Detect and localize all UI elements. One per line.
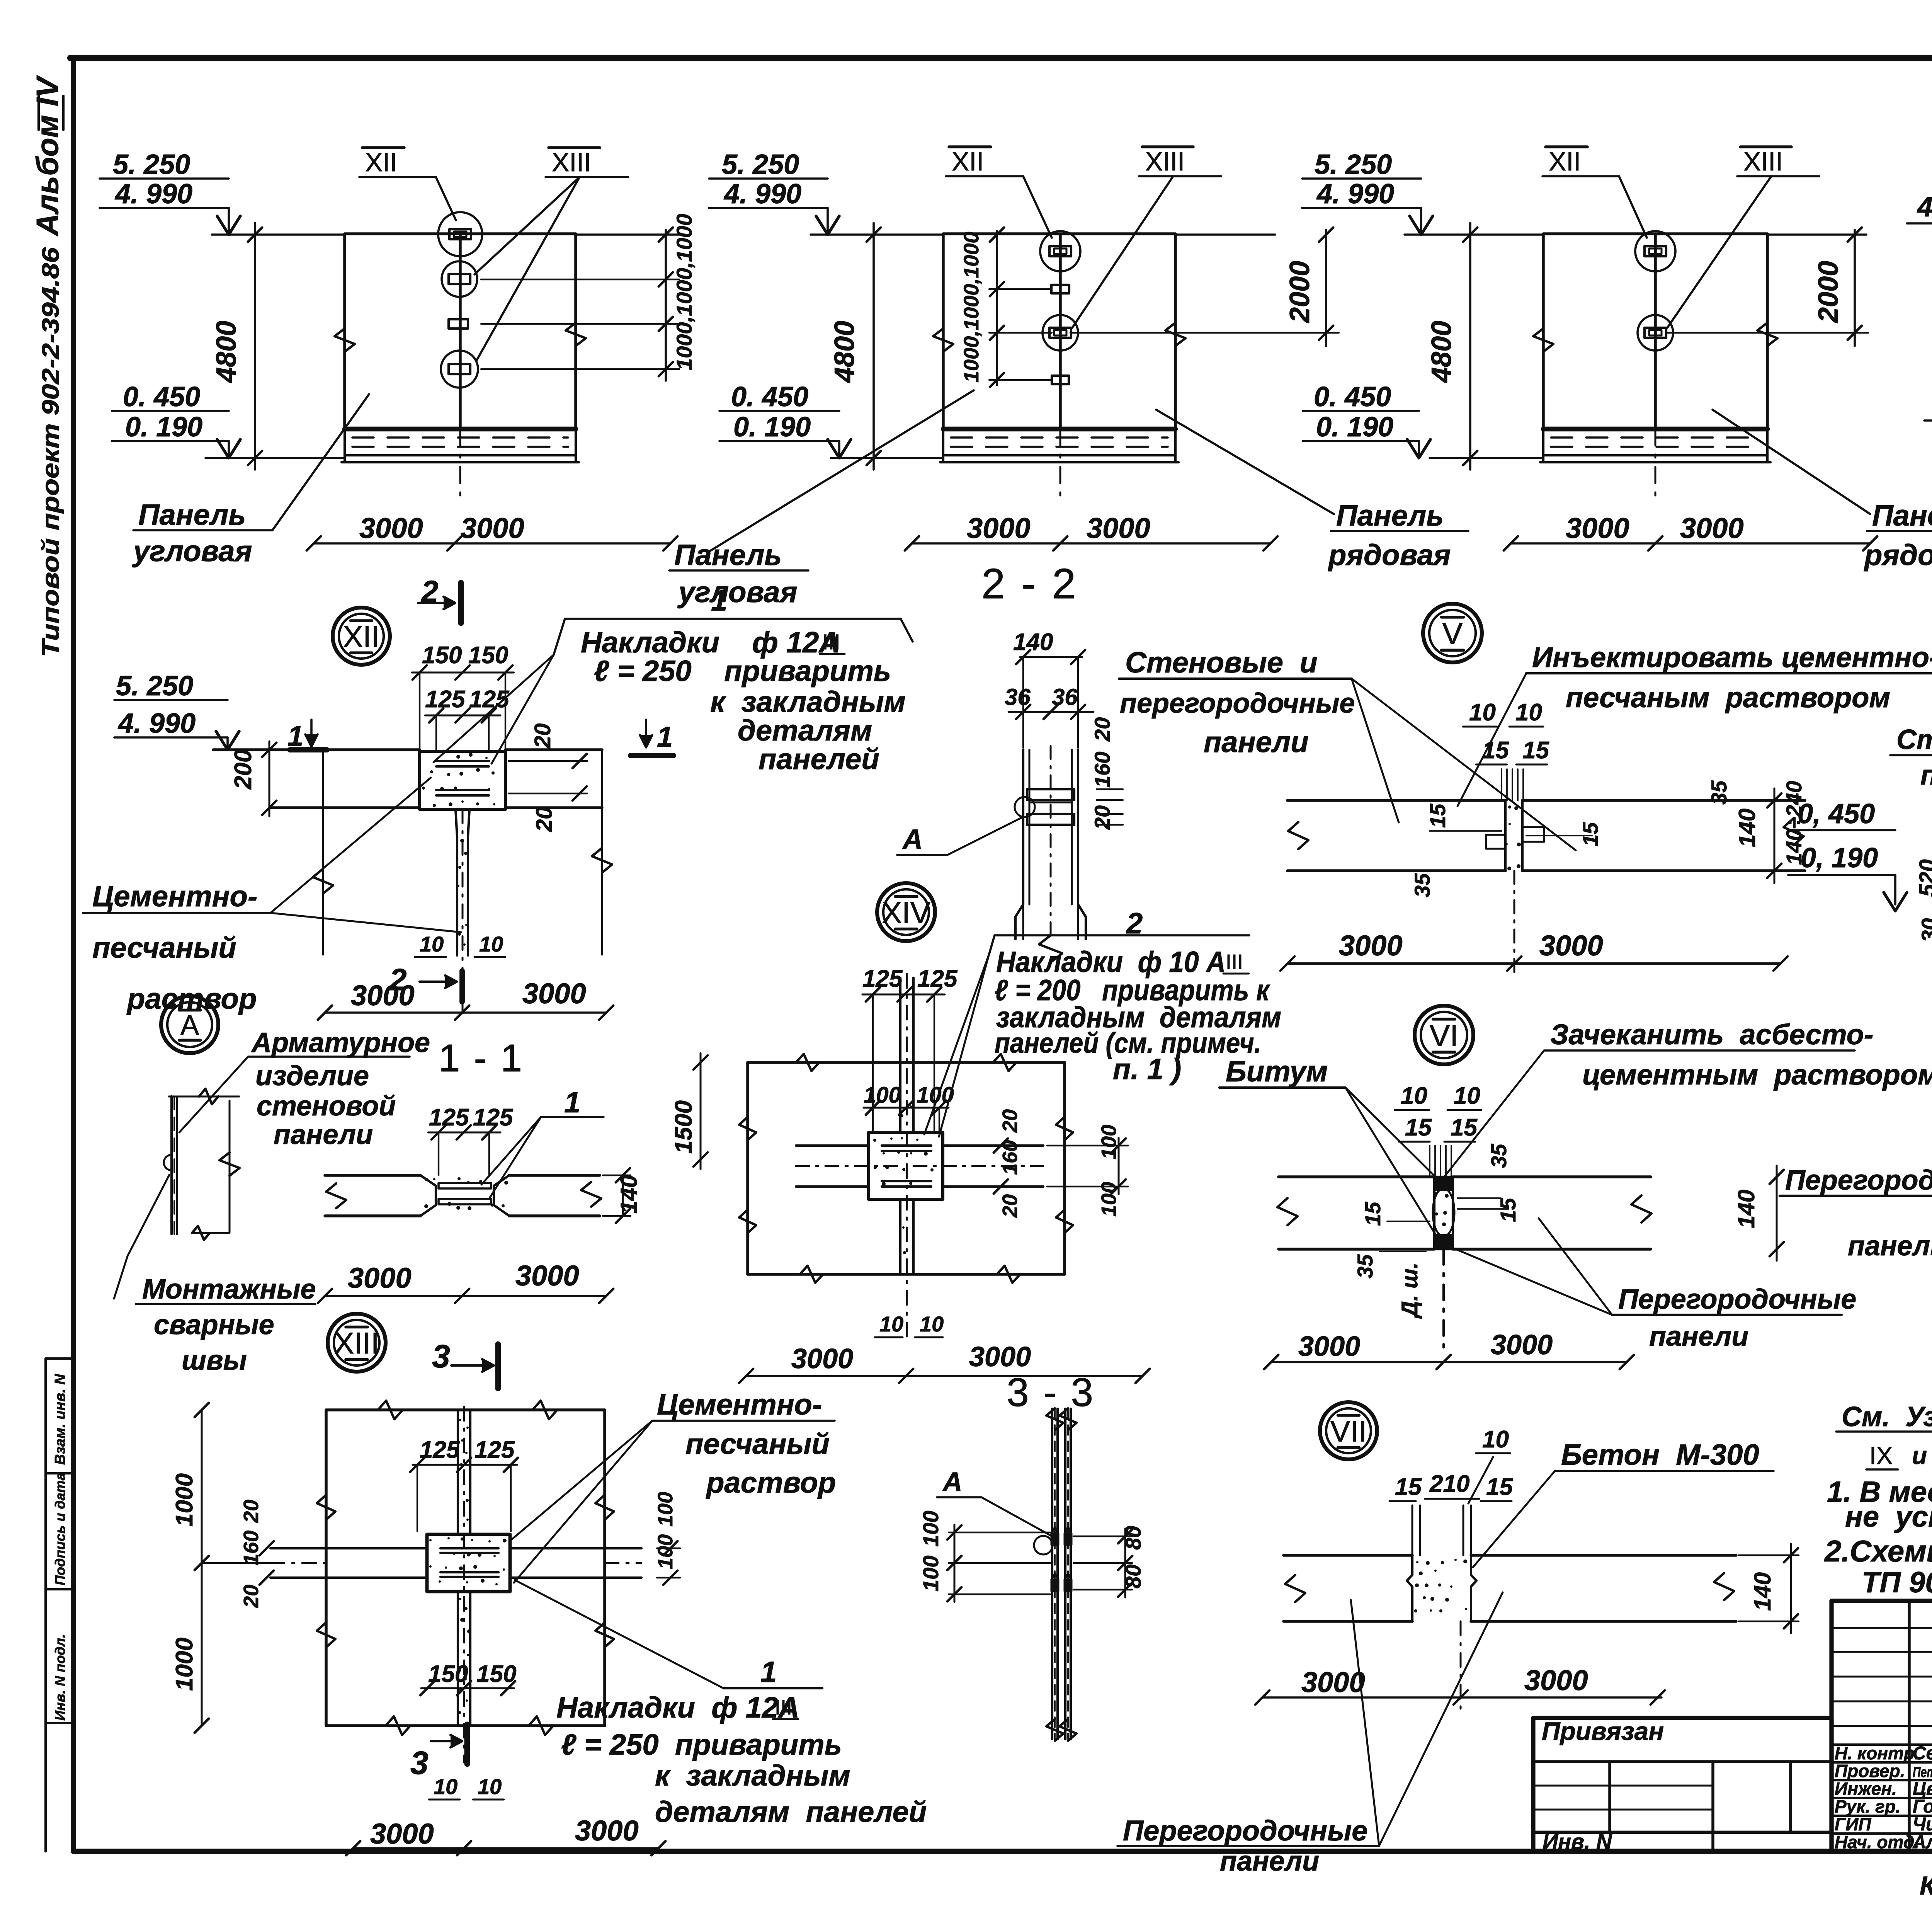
svg-text:10: 10: [479, 932, 503, 956]
svg-text:2000: 2000: [1284, 261, 1315, 323]
svg-text:5. 250: 5. 250: [722, 149, 799, 180]
svg-text:Альтшумер: Альтшумер: [1912, 1832, 1932, 1852]
svg-text:Цементно-: Цементно-: [657, 1388, 822, 1421]
svg-text:10: 10: [420, 932, 444, 956]
svg-text:140: 140: [616, 1175, 642, 1214]
node V witness lines to joint: [1501, 769, 1502, 800]
svg-text:Альбом IV: Альбом IV: [30, 75, 65, 237]
node XII slab lines: [213, 748, 420, 751]
svg-text:Бетон М-300: Бетон М-300: [1561, 1439, 1759, 1471]
svg-text:Подпись и дата: Подпись и дата: [52, 1473, 68, 1585]
svg-text:10: 10: [879, 1312, 903, 1336]
svg-text:XIV: XIV: [882, 896, 930, 930]
svg-text:1000: 1000: [171, 1638, 198, 1691]
svg-text:20: 20: [1090, 805, 1114, 830]
svg-text:35: 35: [1707, 780, 1731, 805]
view II panel outline: [943, 234, 1175, 429]
node XIV centre strip: [899, 978, 901, 1132]
svg-text:3000: 3000: [1301, 1666, 1365, 1698]
svg-text:Перегородочные: Перегородочные: [1123, 1815, 1367, 1847]
svg-text:10: 10: [1469, 699, 1496, 726]
view II node circles on joint: [1040, 231, 1080, 271]
svg-text:VI: VI: [1430, 1018, 1459, 1052]
svg-text:20: 20: [998, 1109, 1022, 1133]
svg-text:150: 150: [476, 1661, 516, 1687]
view III top level line: [1405, 233, 1543, 236]
svg-text:А: А: [180, 1010, 199, 1041]
view I panel elevation: [335, 234, 586, 498]
svg-text:3000: 3000: [791, 1343, 853, 1374]
svg-text:0. 190: 0. 190: [1316, 412, 1393, 443]
svg-text:3000: 3000: [351, 979, 415, 1011]
svg-text:XII: XII: [343, 620, 379, 654]
svg-text:210: 210: [1429, 1471, 1469, 1497]
svg-text:XII: XII: [952, 147, 984, 176]
svg-text:140: 140: [1750, 1572, 1776, 1611]
section 2-2 detail drawing: [1015, 746, 1086, 962]
svg-text:Копировал: В.Филиппова: Копировал: В.Филиппова: [1920, 1871, 1932, 1900]
svg-text:угловая: угловая: [132, 535, 252, 568]
svg-text:Панель: Панель: [138, 499, 246, 531]
svg-text:0, 450: 0, 450: [1798, 798, 1875, 829]
svg-text:XII: XII: [1549, 147, 1581, 176]
node VII formwork lines above slab: [1412, 1505, 1413, 1555]
svg-text:10: 10: [434, 1774, 457, 1799]
svg-text:15: 15: [1522, 737, 1549, 764]
view II top level line: [811, 233, 943, 236]
node circle XIII: [328, 1314, 386, 1372]
svg-text:35: 35: [1486, 1144, 1511, 1168]
svg-text:140: 140: [1734, 809, 1760, 847]
svg-text:Инв. N подл.: Инв. N подл.: [52, 1634, 68, 1721]
svg-text:10: 10: [1482, 1426, 1509, 1453]
svg-text:п. 1 ): п. 1 ): [1113, 1053, 1181, 1086]
svg-text:ℓ = 250 приварить: ℓ = 250 приварить: [594, 655, 891, 688]
svg-text:100: 100: [917, 1083, 954, 1108]
svg-text:Инжен.: Инжен.: [1835, 1779, 1897, 1799]
svg-text:песчаный: песчаный: [685, 1428, 830, 1461]
svg-text:125: 125: [425, 686, 466, 713]
svg-text:125: 125: [429, 1104, 469, 1131]
node circle VII: [1320, 1402, 1377, 1459]
svg-text:III: III: [822, 630, 840, 654]
left sidebar boxes: [46, 1359, 73, 1851]
svg-text:125: 125: [917, 965, 958, 992]
svg-text:3000: 3000: [1339, 930, 1403, 962]
svg-text:III: III: [775, 1696, 792, 1719]
svg-text:Арматурное: Арматурное: [251, 1027, 430, 1058]
section 3-3 leaders from A to plates: [981, 1587, 1030, 1674]
node V slab: [1287, 800, 1805, 871]
svg-text:20: 20: [532, 807, 557, 832]
node circle XII: [333, 608, 390, 665]
svg-text:100: 100: [654, 1492, 677, 1527]
svg-text:См. Узлы: См. Узлы: [1842, 1401, 1932, 1432]
svg-text:20: 20: [998, 1194, 1022, 1218]
svg-text:1 - 1: 1 - 1: [439, 1037, 524, 1080]
svg-text:125: 125: [862, 965, 903, 992]
svg-text:изделие: изделие: [255, 1061, 369, 1091]
svg-text:Н. контр.: Н. контр.: [1835, 1743, 1920, 1763]
svg-text:0. 190: 0. 190: [733, 412, 811, 443]
view II left dim chain 1000x3: [996, 231, 998, 385]
node XIII centre joint strip: [457, 1410, 459, 1534]
view I bottom level line: [206, 457, 344, 459]
view III centre joint line: [1654, 234, 1657, 429]
svg-text:0, 190: 0, 190: [1801, 843, 1878, 873]
svg-text:3000: 3000: [515, 1260, 579, 1292]
svg-text:угловая: угловая: [677, 576, 797, 609]
svg-text:цементным раствором: цементным раствором: [1582, 1059, 1932, 1091]
svg-text:5. 250: 5. 250: [116, 671, 193, 701]
view I centre joint line: [459, 234, 462, 429]
view III right dim 2000: [1854, 230, 1856, 346]
title block privyazan box: [1533, 1718, 1832, 1851]
svg-text:3000: 3000: [1566, 512, 1629, 544]
svg-text:100: 100: [1097, 1125, 1121, 1159]
svg-text:не устанавливать: не устанавливать: [1845, 1500, 1932, 1533]
svg-text:20: 20: [240, 1585, 263, 1608]
svg-text:20: 20: [1090, 717, 1114, 742]
svg-text:панели: панели: [1649, 1321, 1748, 1352]
svg-text:20: 20: [240, 1500, 263, 1523]
node VI slab with bitumen joint: [1277, 1177, 1651, 1249]
svg-text:Семенова: Семенова: [1913, 1743, 1932, 1764]
node XIII dim 1000/1000 left: [201, 1410, 203, 1726]
node XIV joint block: [869, 1132, 943, 1199]
svg-text:Битум: Битум: [1226, 1055, 1328, 1088]
svg-text:3000: 3000: [1491, 1330, 1553, 1360]
view II water strip: [943, 427, 1175, 432]
svg-text:Перегородочные: Перегородочные: [1618, 1284, 1856, 1315]
view I right dim chain 1000x3: [665, 230, 667, 381]
svg-text:XIII: XIII: [1743, 147, 1783, 176]
svg-text:IX: IX: [1869, 1442, 1893, 1469]
svg-text:15: 15: [1486, 1474, 1513, 1500]
svg-text:А: А: [942, 1467, 963, 1497]
svg-text:15: 15: [1482, 737, 1509, 764]
svg-text:100: 100: [918, 1556, 943, 1592]
svg-text:А: А: [902, 824, 923, 855]
svg-text:XII: XII: [365, 148, 397, 177]
title block names box: [1832, 1601, 1932, 1851]
section 3-3 drawing double wall: [1046, 1408, 1077, 1741]
svg-text:Д. ш.: Д. ш.: [1397, 1262, 1422, 1319]
node VI witness lines: [1429, 1146, 1430, 1177]
svg-text:15: 15: [1405, 1114, 1432, 1141]
view II centre joint line: [1059, 234, 1062, 429]
svg-text:VII: VII: [1330, 1415, 1367, 1448]
svg-text:3000: 3000: [522, 977, 586, 1010]
node VII slab with concrete plug: [1284, 1555, 1736, 1621]
node circle XIV: [877, 883, 935, 941]
node circle А: [161, 996, 218, 1053]
svg-text:панели: панели: [274, 1119, 373, 1150]
svg-text:1: 1: [711, 584, 727, 617]
svg-text:деталям: деталям: [738, 714, 872, 747]
svg-text:150: 150: [428, 1661, 468, 1687]
view II dim 4800: [872, 223, 875, 470]
svg-text:140: 140: [1013, 629, 1053, 655]
section 1-1 slab drawing: [325, 1175, 601, 1216]
svg-text:15: 15: [1361, 1202, 1385, 1226]
svg-text:Провер.: Провер.: [1835, 1761, 1905, 1781]
svg-text:3000: 3000: [1524, 1664, 1588, 1696]
node XIII horizontal slab edges: [270, 1547, 427, 1549]
svg-text:Накладки ф 12А: Накладки ф 12А: [581, 626, 840, 659]
svg-text:V: V: [1442, 616, 1463, 650]
svg-text:4, 330: 4, 330: [1917, 192, 1932, 223]
svg-text:Взам. инв. N: Взам. инв. N: [52, 1374, 68, 1465]
svg-text:Монтажные: Монтажные: [142, 1274, 316, 1305]
svg-text:15: 15: [1578, 822, 1602, 846]
svg-text:XIII: XIII: [334, 1326, 379, 1360]
svg-text:Зачеканить асбесто-: Зачеканить асбесто-: [1550, 1018, 1874, 1050]
svg-text:4. 990: 4. 990: [117, 708, 196, 739]
svg-text:панелей: панелей: [759, 743, 879, 776]
svg-text:3000: 3000: [461, 512, 524, 544]
node XII joint block: [420, 751, 505, 809]
svg-text:раствор: раствор: [706, 1466, 836, 1499]
svg-text:15: 15: [1451, 1114, 1478, 1141]
svg-text:0. 450: 0. 450: [1314, 381, 1391, 412]
svg-text:15: 15: [1395, 1474, 1422, 1500]
svg-text:3000: 3000: [1680, 512, 1744, 544]
svg-text:15: 15: [1496, 1198, 1520, 1222]
svg-text:Нач. отд.: Нач. отд.: [1835, 1832, 1919, 1852]
svg-text:стеновой: стеновой: [257, 1091, 396, 1122]
svg-text:ℓ = 250 приварить: ℓ = 250 приварить: [561, 1728, 842, 1761]
view III dim 4800: [1469, 223, 1471, 470]
svg-text:3: 3: [432, 1338, 450, 1374]
svg-text:150: 150: [422, 642, 462, 669]
svg-text:Панель: Панель: [1872, 499, 1932, 532]
svg-text:к закладным: к закладным: [655, 1759, 850, 1792]
svg-text:Инв. N: Инв. N: [1543, 1829, 1612, 1854]
svg-text:Накладки ф 12А: Накладки ф 12А: [556, 1691, 799, 1724]
node circle VI: [1415, 1006, 1473, 1064]
svg-text:рядовая: рядовая: [1328, 539, 1451, 572]
svg-text:1500: 1500: [670, 1100, 697, 1154]
svg-text:36: 36: [1005, 684, 1031, 710]
svg-text:III: III: [1226, 950, 1243, 974]
svg-text:Инъектировать цементно-: Инъектировать цементно-: [1532, 641, 1932, 673]
svg-text:0. 450: 0. 450: [731, 381, 808, 412]
svg-text:5. 250: 5. 250: [113, 149, 190, 180]
svg-text:XIII: XIII: [552, 148, 591, 177]
svg-text:4. 990: 4. 990: [723, 179, 801, 209]
node XII wall below: [456, 809, 457, 955]
svg-text:125: 125: [420, 1437, 460, 1463]
svg-text:панели: панели: [1220, 1846, 1319, 1877]
svg-text:4. 990: 4. 990: [114, 179, 192, 209]
svg-text:2 - 2: 2 - 2: [981, 560, 1078, 608]
view I top level line: [212, 233, 345, 236]
svg-text:0. 450: 0. 450: [123, 381, 200, 412]
svg-text:30: 30: [1917, 918, 1932, 942]
svg-text:швы: швы: [182, 1345, 247, 1376]
svg-text:Панель: Панель: [674, 539, 782, 572]
node XIV slab edges: [796, 1144, 869, 1147]
node circle V: [1423, 604, 1482, 662]
svg-text:XIII: XIII: [1145, 147, 1185, 176]
svg-text:3000: 3000: [370, 1818, 434, 1850]
view I panel outline: [345, 234, 576, 429]
svg-text:10: 10: [478, 1774, 502, 1799]
view III panel outline: [1543, 234, 1767, 429]
svg-text:панель: панель: [1848, 1231, 1932, 1262]
svg-text:песчаным раствором: песчаным раствором: [1566, 681, 1890, 713]
svg-text:и: и: [1912, 1442, 1927, 1469]
svg-text:3000: 3000: [969, 1342, 1031, 1372]
svg-text:35: 35: [1410, 873, 1434, 897]
view II panel elevation: [933, 234, 1185, 498]
svg-text:Привязан: Привязан: [1542, 1717, 1664, 1745]
svg-text:100: 100: [864, 1083, 901, 1108]
svg-text:деталям панелей: деталям панелей: [655, 1796, 927, 1828]
svg-text:3: 3: [410, 1745, 429, 1781]
detail A drawing vertical panel edge: [164, 1089, 240, 1240]
svg-text:песчаный: песчаный: [92, 931, 236, 964]
node XIV plan outline: [739, 1054, 1073, 1283]
svg-text:Цементно-: Цементно-: [92, 880, 257, 913]
svg-text:3000: 3000: [1298, 1331, 1360, 1362]
title block top border: [1832, 1599, 1932, 1603]
svg-text:160: 160: [1090, 752, 1114, 788]
svg-text:панели: панели: [1204, 726, 1309, 759]
svg-text:5. 250: 5. 250: [1315, 149, 1392, 180]
svg-text:140: 140: [1733, 1190, 1759, 1228]
view III node circles on joint: [1635, 231, 1675, 271]
svg-text:1: 1: [657, 721, 673, 753]
svg-text:ТП 902-2-394.86 ал.: ТП 902-2-394.86 ал.: [1862, 1566, 1932, 1599]
svg-text:10: 10: [1454, 1083, 1480, 1109]
svg-text:3000: 3000: [348, 1262, 412, 1294]
svg-text:160: 160: [240, 1531, 263, 1565]
svg-text:150: 150: [468, 642, 508, 669]
svg-text:перегородочные: перегородочные: [1120, 688, 1355, 719]
node XIII joint block: [427, 1534, 510, 1592]
svg-text:1000: 1000: [171, 1473, 198, 1527]
svg-text:35: 35: [1353, 1254, 1377, 1279]
svg-text:125: 125: [474, 1437, 515, 1463]
svg-text:15: 15: [1425, 804, 1450, 828]
svg-text:4800: 4800: [829, 321, 860, 383]
svg-text:1: 1: [564, 1086, 580, 1119]
view II right dim 2000: [1325, 230, 1327, 346]
svg-text:1: 1: [760, 1656, 777, 1689]
svg-text:100: 100: [918, 1511, 943, 1547]
svg-text:2000: 2000: [1813, 261, 1844, 323]
svg-text:сварные: сварные: [154, 1309, 274, 1340]
node XIII panel plan outline: [317, 1401, 614, 1735]
node XII side witness columns: [322, 750, 324, 955]
svg-text:10: 10: [920, 1312, 944, 1336]
view III bottom level line: [1430, 457, 1542, 459]
view I dim 4800: [254, 223, 256, 470]
svg-text:к закладным: к закладным: [710, 686, 906, 718]
view II bottom level line: [831, 457, 942, 459]
svg-text:3000: 3000: [1539, 930, 1603, 962]
svg-text:Рук. гр.: Рук. гр.: [1835, 1796, 1901, 1817]
svg-text:ГИП: ГИП: [1835, 1814, 1871, 1834]
svg-text:3000: 3000: [1087, 512, 1150, 544]
view I node circles on joint: [438, 212, 482, 256]
view III panel elevation: [1533, 234, 1777, 498]
svg-text:панель: панель: [1920, 760, 1932, 791]
svg-text:Перегородочная: Перегородочная: [1785, 1165, 1932, 1196]
svg-text:4. 990: 4. 990: [1316, 179, 1394, 209]
svg-text:10: 10: [1515, 699, 1542, 726]
view III water strip: [1543, 427, 1767, 432]
svg-text:3000: 3000: [967, 512, 1031, 544]
svg-text:Панель: Панель: [1336, 499, 1444, 532]
svg-text:Типовой проект 902-2-394.86: Типовой проект 902-2-394.86: [37, 247, 64, 657]
svg-text:Стеновая: Стеновая: [1896, 724, 1932, 755]
svg-text:1000,1000,1000: 1000,1000,1000: [672, 214, 696, 370]
svg-text:1000,1000,1000: 1000,1000,1000: [960, 232, 983, 383]
svg-text:10: 10: [1401, 1083, 1427, 1109]
svg-text:Стеновые и: Стеновые и: [1125, 646, 1318, 679]
svg-text:0. 190: 0. 190: [125, 412, 202, 443]
svg-text:4800: 4800: [1426, 321, 1457, 383]
svg-text:3000: 3000: [575, 1815, 639, 1847]
svg-text:2.Схемы расположения элемен: 2.Схемы расположения элементов стен см.: [1824, 1534, 1932, 1568]
svg-text:20: 20: [530, 723, 555, 749]
svg-text:рядовая: рядовая: [1864, 539, 1932, 572]
svg-text:520: 520: [1915, 859, 1932, 897]
view I water strip: [345, 427, 576, 432]
svg-text:Петропавловская: Петропавловская: [1913, 1764, 1932, 1781]
svg-text:4800: 4800: [211, 321, 242, 383]
svg-text:3000: 3000: [359, 512, 423, 544]
svg-text:200: 200: [230, 749, 257, 790]
